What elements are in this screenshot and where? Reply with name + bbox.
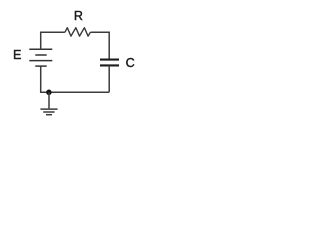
resistor R1	[65, 28, 91, 36]
junction dot	[46, 90, 52, 96]
ground	[40, 92, 57, 115]
svg-text:C: C	[126, 56, 135, 70]
battery E1	[29, 49, 52, 66]
capacitor C1	[100, 60, 119, 66]
wire resistor to capacitor top	[90, 32, 109, 59]
wire battery top to resistor	[41, 32, 65, 49]
wire capacitor bottom to return	[108, 65, 110, 92]
svg-text:E: E	[13, 48, 21, 62]
wire bottom return to battery	[41, 66, 110, 92]
svg-text:R: R	[74, 9, 83, 23]
